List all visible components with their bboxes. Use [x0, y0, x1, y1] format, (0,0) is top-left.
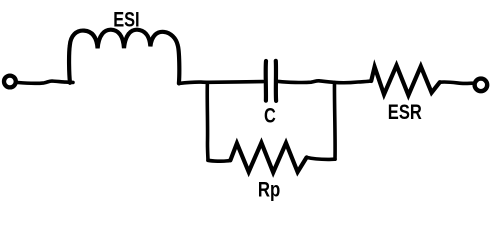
- svg-text:C: C: [264, 104, 276, 127]
- svg-text:ESI: ESI: [113, 9, 139, 32]
- right branch vertical wire: [333, 82, 337, 159]
- node A: left branch vertical wire: [205, 82, 209, 160]
- left terminal: [4, 76, 16, 88]
- wire left terminal to inductor: [18, 81, 73, 83]
- bottom wire to Rp: [208, 159, 230, 164]
- resistor ESR: [371, 65, 440, 95]
- capacitor C left plate: [264, 61, 269, 101]
- wire capacitor to ESR (through right node): [278, 81, 371, 83]
- resistor Rp: [230, 143, 306, 173]
- capacitor C right plate: [274, 61, 279, 101]
- svg-text:Rp: Rp: [258, 179, 280, 202]
- wire inductor to capacitor (through left node): [179, 82, 263, 84]
- svg-text:ESR: ESR: [388, 101, 422, 124]
- bottom wire Rp to right vertical: [307, 157, 335, 159]
- wire ESR to right terminal: [440, 82, 472, 84]
- inductor ESI: [69, 30, 179, 84]
- right terminal: [475, 79, 488, 92]
